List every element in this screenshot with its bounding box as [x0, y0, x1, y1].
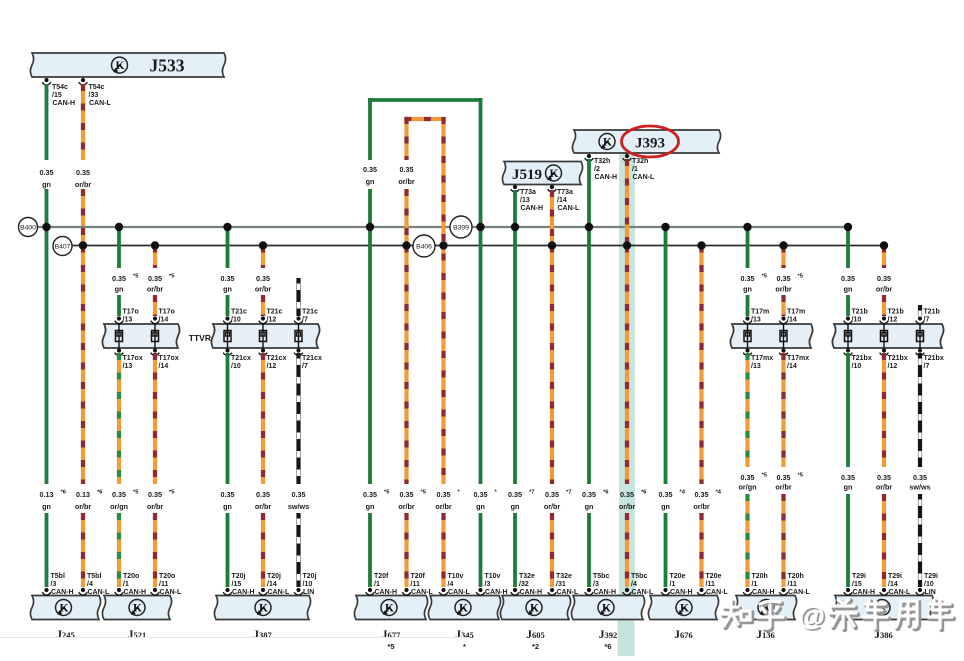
svg-text:/3: /3 — [485, 581, 491, 588]
pin T20o/11 at J521 — [151, 588, 160, 595]
svg-text:gn: gn — [42, 502, 51, 511]
wire or/br loop left leg upper — [404, 117, 408, 160]
svg-text:T20e: T20e — [670, 573, 686, 580]
svg-text:*: * — [463, 642, 466, 651]
wire gn from T21cx/10 down to J387 — [226, 353, 230, 484]
svg-text:CAN-H: CAN-H — [520, 589, 543, 596]
svg-text:*5: *5 — [762, 473, 768, 479]
svg-text:/13: /13 — [751, 317, 761, 324]
svg-text:CAN-L: CAN-L — [788, 589, 810, 596]
svg-text:T20h: T20h — [752, 573, 768, 580]
wire gn J533 T54c/15 upper segment — [45, 84, 49, 160]
wire or/br J533 to CAN-L bus and down — [81, 189, 85, 484]
svg-text:gn: gn — [844, 483, 853, 492]
svg-text:/14: /14 — [557, 197, 567, 204]
wire segment to strip pin — [153, 295, 157, 316]
wire gn from bus to inline connector — [746, 227, 750, 268]
svg-text:0.35: 0.35 — [841, 274, 855, 283]
svg-text:0.35: 0.35 — [659, 490, 673, 499]
wire or/br loop (CAN-L) over the top — [404, 117, 445, 121]
pin label T21bx/12 — [888, 355, 908, 370]
svg-text:0.35: 0.35 — [508, 490, 522, 499]
label 0.35 *4 or/br — [693, 490, 721, 512]
junction dots on CAN-L bus — [79, 241, 888, 249]
pin label T29i/15 CAN-H — [852, 573, 875, 596]
inline connector strip T21b — [832, 324, 943, 348]
pin label T20h/11 CAN-L — [788, 573, 811, 596]
svg-text:CAN-L: CAN-L — [889, 589, 911, 596]
svg-text:CAN-L: CAN-L — [633, 174, 655, 181]
svg-text:gn: gn — [511, 502, 520, 511]
svg-text:J393: J393 — [635, 136, 665, 152]
svg-text:T20j: T20j — [232, 573, 246, 580]
svg-text:J392: J392 — [599, 629, 618, 641]
svg-text:CAN-L: CAN-L — [448, 589, 470, 596]
node B399 — [450, 216, 472, 238]
svg-text:/10: /10 — [231, 317, 241, 324]
svg-text:gn: gn — [366, 502, 375, 511]
wire gn loop left leg upper — [368, 98, 372, 160]
pin label T21cx/7 — [302, 355, 322, 370]
wire gn from bus to inline connector — [226, 227, 230, 268]
svg-text:/12: /12 — [888, 363, 898, 370]
pin label T54c/15 CAN-H — [52, 84, 75, 107]
pin label T73a/13 CAN-H — [520, 189, 543, 212]
svg-text:*7: *7 — [566, 490, 571, 496]
svg-text:T17o: T17o — [123, 309, 139, 316]
svg-text:0.35: 0.35 — [363, 165, 377, 174]
wire or/br to J345 T10v/4 — [441, 513, 445, 587]
svg-text:or/br: or/br — [398, 177, 415, 186]
svg-text:CAN-H: CAN-H — [53, 100, 76, 107]
pin T21b/12 at strip top — [880, 316, 889, 323]
wire gn J519 T73a/13 to CAN-H bus and down to J605 — [513, 190, 517, 484]
svg-text:T21bx: T21bx — [924, 355, 944, 362]
svg-text:or/br: or/br — [876, 483, 893, 492]
svg-text:or/br: or/br — [544, 502, 561, 511]
svg-text:0.35: 0.35 — [363, 490, 377, 499]
svg-text:/3: /3 — [51, 581, 57, 588]
wire (LIN) entering strip — [296, 278, 300, 316]
wire or/br from strip T17ox/14 down — [153, 353, 157, 484]
pin T5bc/3 at J392 — [585, 588, 594, 595]
pin label T20e/1 CAN-H — [670, 573, 693, 596]
wire gn down to J245 T5bl/3 — [45, 513, 49, 587]
label 0.35 *5 or/br — [398, 490, 426, 512]
pin label T17m/13 — [751, 309, 769, 324]
svg-text:/10: /10 — [852, 363, 862, 370]
pin T21bx/12 at strip bottom — [880, 348, 889, 355]
svg-text:T32h: T32h — [594, 158, 610, 165]
label J605 — [526, 629, 545, 651]
pin label T10v/3 CAN-H — [485, 573, 508, 596]
pin label T29i/14 CAN-L — [888, 573, 911, 596]
control unit J136 box — [734, 596, 796, 620]
pin T73a/14 at J519 — [548, 185, 557, 192]
svg-text:B406: B406 — [416, 244, 432, 251]
connector pass-through symbol T21c/12 — [260, 324, 267, 348]
svg-text:gn: gn — [223, 502, 232, 511]
red highlight ellipse around J393 — [622, 126, 679, 157]
pin T21cx/12 at strip bottom — [259, 348, 268, 355]
label 0.35 sw/ws — [288, 490, 309, 511]
svg-text:0.35: 0.35 — [741, 274, 755, 283]
svg-text:T21b: T21b — [852, 309, 868, 316]
svg-text:/11: /11 — [788, 581, 797, 588]
control unit J533 box (data bus diagnostic interface) — [30, 53, 225, 77]
svg-text:0.35: 0.35 — [112, 490, 126, 499]
svg-text:CAN-H: CAN-H — [51, 589, 74, 596]
pin T5bc/4 at J392 — [623, 588, 632, 595]
label 0.35 or/br — [876, 274, 893, 294]
label J676 — [674, 629, 693, 641]
wire sw/ws (LIN) to J387 T20j/10 — [296, 513, 300, 587]
wire gn loop right leg down to J345 — [479, 98, 483, 484]
pin T21b/7 at strip top — [916, 316, 925, 323]
svg-text:*5: *5 — [133, 274, 139, 280]
svg-text:T54c: T54c — [89, 84, 105, 91]
svg-text:*6: *6 — [603, 490, 609, 496]
svg-text:0.35: 0.35 — [877, 473, 891, 482]
svg-text:T5bl: T5bl — [87, 573, 101, 580]
svg-text:J605: J605 — [526, 629, 545, 641]
svg-text:0.35: 0.35 — [400, 165, 414, 174]
svg-text:or/br: or/br — [435, 502, 452, 511]
svg-text:*5: *5 — [421, 490, 427, 496]
svg-text:/7: /7 — [924, 363, 930, 370]
connector pass-through symbol T17m/13 — [744, 324, 751, 348]
svg-text:*6: *6 — [604, 642, 611, 651]
svg-text:/14: /14 — [267, 581, 277, 588]
wire gn from bus to inline connector — [117, 227, 121, 268]
pin label T20j/10 LIN — [303, 573, 317, 596]
svg-text:or/br: or/br — [75, 180, 92, 189]
svg-text:T17o: T17o — [159, 309, 175, 316]
pin label T20f/1 CAN-H — [374, 573, 397, 596]
pin T20f/1 at J677 — [366, 588, 375, 595]
label 0.35 gn — [40, 168, 54, 189]
wire or/br J533 T54c/33 upper segment — [81, 84, 85, 160]
svg-text:/15: /15 — [232, 581, 242, 588]
svg-text:T17mx: T17mx — [787, 355, 809, 362]
pin T17ox/14 at strip bottom — [151, 348, 160, 355]
pin label T17ox/13 — [123, 355, 143, 370]
svg-text:J677: J677 — [382, 629, 401, 641]
svg-text:@: @ — [799, 601, 825, 631]
wire or/br from bus to inline connector — [261, 246, 265, 269]
pin T20e/11 at J676 — [697, 588, 706, 595]
svg-text:/32: /32 — [519, 581, 529, 588]
wire or/br from bus to inline connector — [153, 246, 157, 269]
svg-text:*5: *5 — [762, 274, 768, 280]
wire segment to strip pin — [781, 295, 785, 316]
pin T5bl/4 at J245 — [79, 588, 88, 595]
svg-text:/1: /1 — [374, 581, 380, 588]
wire or/gn to J136 T20h/1 — [745, 494, 749, 587]
pin T29i/15 at J386 — [844, 588, 853, 595]
svg-text:/12: /12 — [888, 317, 898, 324]
label J386 — [874, 629, 893, 641]
label 0.35 *6 or/br — [619, 490, 647, 512]
label J345 — [455, 629, 474, 651]
wire gn to J386 T29i/15 — [846, 494, 850, 587]
svg-text:*7: *7 — [529, 490, 534, 496]
wire gn to J605 T32e/32 — [513, 513, 517, 587]
svg-text:T29i: T29i — [924, 573, 938, 580]
wire gn to J392 T5bc/3 — [587, 513, 591, 587]
svg-text:J519: J519 — [512, 167, 542, 183]
wire segment to strip pin — [117, 295, 121, 316]
svg-text:or/gn: or/gn — [110, 502, 128, 511]
svg-text:B399: B399 — [453, 225, 469, 232]
svg-text:or/br: or/br — [619, 502, 636, 511]
wire or/br to J521 T20o/11 — [153, 513, 157, 587]
svg-text:T5bc: T5bc — [593, 573, 609, 580]
pin label T29i/10 LIN — [924, 573, 938, 596]
pin T21c/12 at strip top — [259, 316, 268, 323]
svg-text:0.35: 0.35 — [292, 490, 306, 499]
svg-text:CAN-H: CAN-H — [594, 589, 617, 596]
pin label T21c/12 — [267, 309, 283, 324]
svg-text:/14: /14 — [787, 363, 797, 370]
label 0.35 gn — [363, 165, 377, 186]
svg-text:/13: /13 — [520, 197, 530, 204]
pin label T17o/13 — [123, 309, 139, 324]
svg-text:CAN-H: CAN-H — [124, 589, 147, 596]
svg-text:B407: B407 — [55, 244, 71, 251]
wire or/br from CAN-L bus down to J676 — [699, 246, 703, 485]
svg-text:LIN: LIN — [303, 589, 314, 596]
control unit J605 box — [500, 596, 570, 620]
pin label T21bx/10 — [852, 355, 872, 370]
svg-text:/15: /15 — [852, 581, 862, 588]
svg-text:/10: /10 — [231, 363, 241, 370]
svg-text:CAN-H: CAN-H — [232, 589, 255, 596]
svg-text:*5: *5 — [169, 490, 175, 496]
pin T17mx/13 at strip bottom — [743, 348, 752, 355]
label 0.13 *6 or/br — [75, 490, 103, 512]
svg-text:T20j: T20j — [303, 573, 317, 580]
svg-text:T29i: T29i — [852, 573, 866, 580]
svg-text:J387: J387 — [253, 629, 272, 641]
pin label T21cx/12 — [267, 355, 287, 370]
svg-text:/3: /3 — [593, 581, 599, 588]
svg-text:gn: gn — [844, 285, 853, 294]
svg-text:T32h: T32h — [632, 158, 648, 165]
label 0.35 or/br — [876, 473, 893, 492]
svg-text:CAN-H: CAN-H — [521, 205, 544, 212]
pin T29i/14 at J386 — [880, 588, 889, 595]
svg-text:0.35: 0.35 — [256, 490, 270, 499]
svg-text:/10: /10 — [852, 317, 862, 324]
label 0.35 *6 gn — [582, 490, 609, 512]
svg-text:or/br: or/br — [876, 285, 893, 294]
svg-text:0.35: 0.35 — [76, 168, 90, 177]
svg-text:T20j: T20j — [267, 573, 281, 580]
svg-text:/7: /7 — [924, 317, 930, 324]
svg-text:0.35: 0.35 — [695, 490, 709, 499]
label 0.35 * or/br — [435, 490, 460, 512]
wire or/br from T21cx/12 down — [261, 353, 265, 484]
svg-text:/4: /4 — [448, 581, 454, 588]
svg-text:0.35: 0.35 — [620, 490, 634, 499]
svg-text:T20h: T20h — [788, 573, 804, 580]
wire gn left leg to CAN-H bus and down — [368, 189, 372, 484]
pin T10v/4 at J345 — [439, 588, 448, 595]
label J392 — [599, 629, 618, 651]
node B407 — [53, 237, 72, 256]
wire or/br loop right leg down to J345 — [441, 117, 445, 484]
label 0.35 or/br — [75, 168, 92, 189]
svg-text:T29i: T29i — [888, 573, 902, 580]
label 0.35 sw/ws — [909, 473, 930, 492]
svg-text:or/br: or/br — [775, 483, 792, 492]
pin T17mx/14 at strip bottom — [779, 348, 788, 355]
label 0.35 gn — [841, 274, 855, 294]
wire or/br down to J245 T5bl/4 — [81, 513, 85, 587]
svg-text:0.35: 0.35 — [841, 473, 855, 482]
wire or/br to J387 T20j/14 — [261, 513, 265, 587]
svg-text:T21c: T21c — [267, 309, 283, 316]
wire or/br to J677 T20f/11 — [404, 513, 408, 587]
wire or/br J393 T32h/1 to CAN-L bus and down (highlighted) — [625, 159, 629, 484]
pin T21cx/10 at strip bottom — [223, 348, 232, 355]
svg-text:0.35: 0.35 — [913, 473, 927, 482]
pin T21bx/10 at strip bottom — [844, 348, 853, 355]
wire segment to strip pin — [226, 295, 230, 316]
pin T21cx/7 at strip bottom — [294, 348, 303, 355]
svg-text:or/br: or/br — [255, 502, 272, 511]
wire gn to J677 T20f/1 — [368, 513, 372, 587]
pin label T20j/15 CAN-H — [232, 573, 255, 596]
svg-text:CAN-H: CAN-H — [375, 589, 398, 596]
pin T20j/14 at J387 — [259, 588, 268, 595]
pin label T20j/14 CAN-L — [267, 573, 290, 596]
pin T73a/13 at J519 — [511, 185, 520, 192]
svg-text:or/br: or/br — [255, 285, 272, 294]
pin T32h/2 at J393 — [585, 154, 594, 161]
pin label T17mx/14 — [787, 355, 809, 370]
svg-text:T21b: T21b — [888, 309, 904, 316]
svg-text:/33: /33 — [89, 92, 99, 99]
svg-text:T73a: T73a — [557, 189, 573, 196]
wire gn from T21bx/10 down to J386 — [846, 353, 850, 467]
svg-text:T21c: T21c — [302, 309, 318, 316]
wire or/br left leg to CAN-L bus and down — [404, 189, 408, 484]
svg-text:/1: /1 — [632, 166, 638, 173]
svg-text:J345: J345 — [455, 629, 474, 641]
svg-text:CAN-L: CAN-L — [268, 589, 290, 596]
connector pass-through symbol T17m/14 — [780, 324, 787, 348]
wire sw/ws from T21cx/7 down — [296, 353, 300, 484]
svg-text:T17ox: T17ox — [159, 355, 179, 362]
label 0.35 *7 gn — [508, 490, 534, 512]
svg-text:0.13: 0.13 — [40, 490, 54, 499]
pin label T21c/7 — [302, 309, 318, 324]
svg-text:*6: *6 — [641, 490, 647, 496]
pin T20j/15 at J387 — [223, 588, 232, 595]
label 0.35 *5 or/br — [147, 490, 175, 512]
wire or/br J519 T73a/14 to CAN-L bus and down — [550, 190, 554, 484]
pin label T20o/11 CAN-L — [159, 573, 182, 596]
label 0.35 *5 or/gn — [739, 473, 768, 492]
svg-text:T21cx: T21cx — [231, 355, 251, 362]
label 0.35 or/br — [398, 165, 415, 186]
wire or/br from T21bx/12 down — [882, 353, 886, 467]
wire gn J533 to CAN-H bus and down to J245 — [45, 189, 49, 484]
label 0.35 *7 or/br — [544, 490, 572, 512]
label 0.35 *4 gn — [659, 490, 686, 512]
svg-text:*5: *5 — [387, 642, 394, 651]
pin T20f/11 at J677 — [402, 588, 411, 595]
svg-text:0.35: 0.35 — [741, 473, 755, 482]
pin label T17m/14 — [787, 309, 805, 324]
svg-text:T32e: T32e — [556, 573, 572, 580]
svg-text:0.35: 0.35 — [474, 490, 488, 499]
label 0.35 gn — [841, 473, 855, 492]
label 0.35 *5 gn — [363, 490, 390, 512]
pin T20o/1 at J521 — [115, 588, 124, 595]
label J677 — [382, 629, 401, 651]
svg-text:J245: J245 — [56, 629, 75, 641]
wire (LIN) entering strip — [918, 305, 922, 316]
svg-text:gn: gn — [743, 285, 752, 294]
svg-text:T10v: T10v — [485, 573, 501, 580]
label 0.35 or/br — [255, 274, 272, 294]
svg-text:/14: /14 — [787, 317, 797, 324]
label 0.35 gn — [112, 274, 139, 294]
wire gn to J345 T10v/3 — [479, 513, 483, 587]
pin label T17mx/13 — [751, 355, 773, 370]
control unit J245 box — [30, 596, 100, 620]
svg-text:/11: /11 — [159, 581, 168, 588]
svg-text:CAN-H: CAN-H — [670, 589, 693, 596]
highlight band (teal) tracing J393 CAN-L wire down to J392 — [619, 152, 635, 600]
svg-text:CAN-H: CAN-H — [853, 589, 876, 596]
label 0.35 or/br — [255, 490, 272, 511]
inline connector strip T17m — [730, 324, 812, 348]
pin T17m/13 at strip top — [743, 316, 752, 323]
control unit J393 box (highlighted) — [572, 130, 720, 153]
svg-text:T20e: T20e — [706, 573, 722, 580]
svg-text:/13: /13 — [123, 317, 133, 324]
wire gn loop connecting J677 and J345 over the top — [368, 98, 482, 102]
svg-text:CAN-L: CAN-L — [706, 589, 728, 596]
svg-text:/15: /15 — [52, 92, 62, 99]
label TTVR — [189, 333, 211, 343]
label 0.35 gn — [221, 274, 235, 294]
svg-text:*5: *5 — [384, 490, 390, 496]
pin T20j/10 at J387 — [294, 588, 303, 595]
pin T32e/32 at J605 — [511, 588, 520, 595]
pin label T21b/10 — [852, 309, 868, 324]
svg-text:gn: gn — [115, 285, 124, 294]
svg-text:TTVR: TTVR — [189, 333, 211, 343]
svg-text:sw/ws: sw/ws — [909, 483, 930, 492]
label J387 — [253, 629, 272, 641]
connector pass-through symbol T21b/12 — [881, 324, 888, 348]
label 0.35 *5 or/gn — [110, 490, 139, 512]
wire or/gn to J521 T20o/1 — [117, 513, 121, 587]
pin label T17ox/14 — [159, 355, 179, 370]
svg-text:/10: /10 — [924, 581, 934, 588]
pin T10v/3 at J345 — [476, 588, 485, 595]
label 0.35 or/br — [147, 274, 175, 294]
svg-text:/12: /12 — [267, 317, 277, 324]
connector pass-through symbol T21b/7 — [917, 324, 924, 348]
svg-text:0.35: 0.35 — [437, 490, 451, 499]
wire sw/ws from T21bx/7 down — [918, 353, 922, 467]
